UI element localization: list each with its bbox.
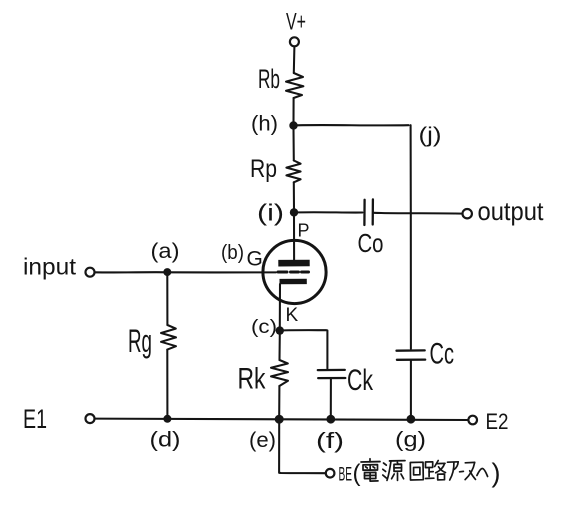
svg-text:Cc: Cc xyxy=(430,338,455,371)
svg-text:Ck: Ck xyxy=(347,364,374,397)
svg-text:(c): (c) xyxy=(251,317,277,338)
svg-text:(h): (h) xyxy=(251,113,278,136)
svg-text:(i): (i) xyxy=(257,200,284,226)
svg-text:(f): (f) xyxy=(316,428,344,453)
svg-text:Co: Co xyxy=(358,228,384,258)
svg-text:input: input xyxy=(23,254,77,280)
svg-text:BE: BE xyxy=(339,465,353,486)
svg-text:(e): (e) xyxy=(249,429,276,452)
svg-text:E2: E2 xyxy=(486,409,509,434)
svg-text:(b): (b) xyxy=(221,242,244,264)
svg-text:(a): (a) xyxy=(151,240,180,263)
svg-text:G: G xyxy=(247,248,263,271)
svg-text:Rp: Rp xyxy=(250,155,277,183)
svg-text:): ) xyxy=(492,458,501,488)
svg-text:P: P xyxy=(298,221,310,241)
svg-text:K: K xyxy=(286,305,299,326)
svg-text:(: ( xyxy=(353,460,361,487)
svg-text:(j): (j) xyxy=(419,124,442,147)
svg-text:(d): (d) xyxy=(150,429,181,452)
svg-text:Rb: Rb xyxy=(258,64,280,94)
svg-text:Rg: Rg xyxy=(128,323,152,359)
svg-text:output: output xyxy=(478,196,545,226)
svg-text:E1: E1 xyxy=(23,404,47,434)
svg-text:(g): (g) xyxy=(395,429,426,452)
svg-text:Rk: Rk xyxy=(238,363,267,396)
svg-text:V+: V+ xyxy=(286,9,306,36)
